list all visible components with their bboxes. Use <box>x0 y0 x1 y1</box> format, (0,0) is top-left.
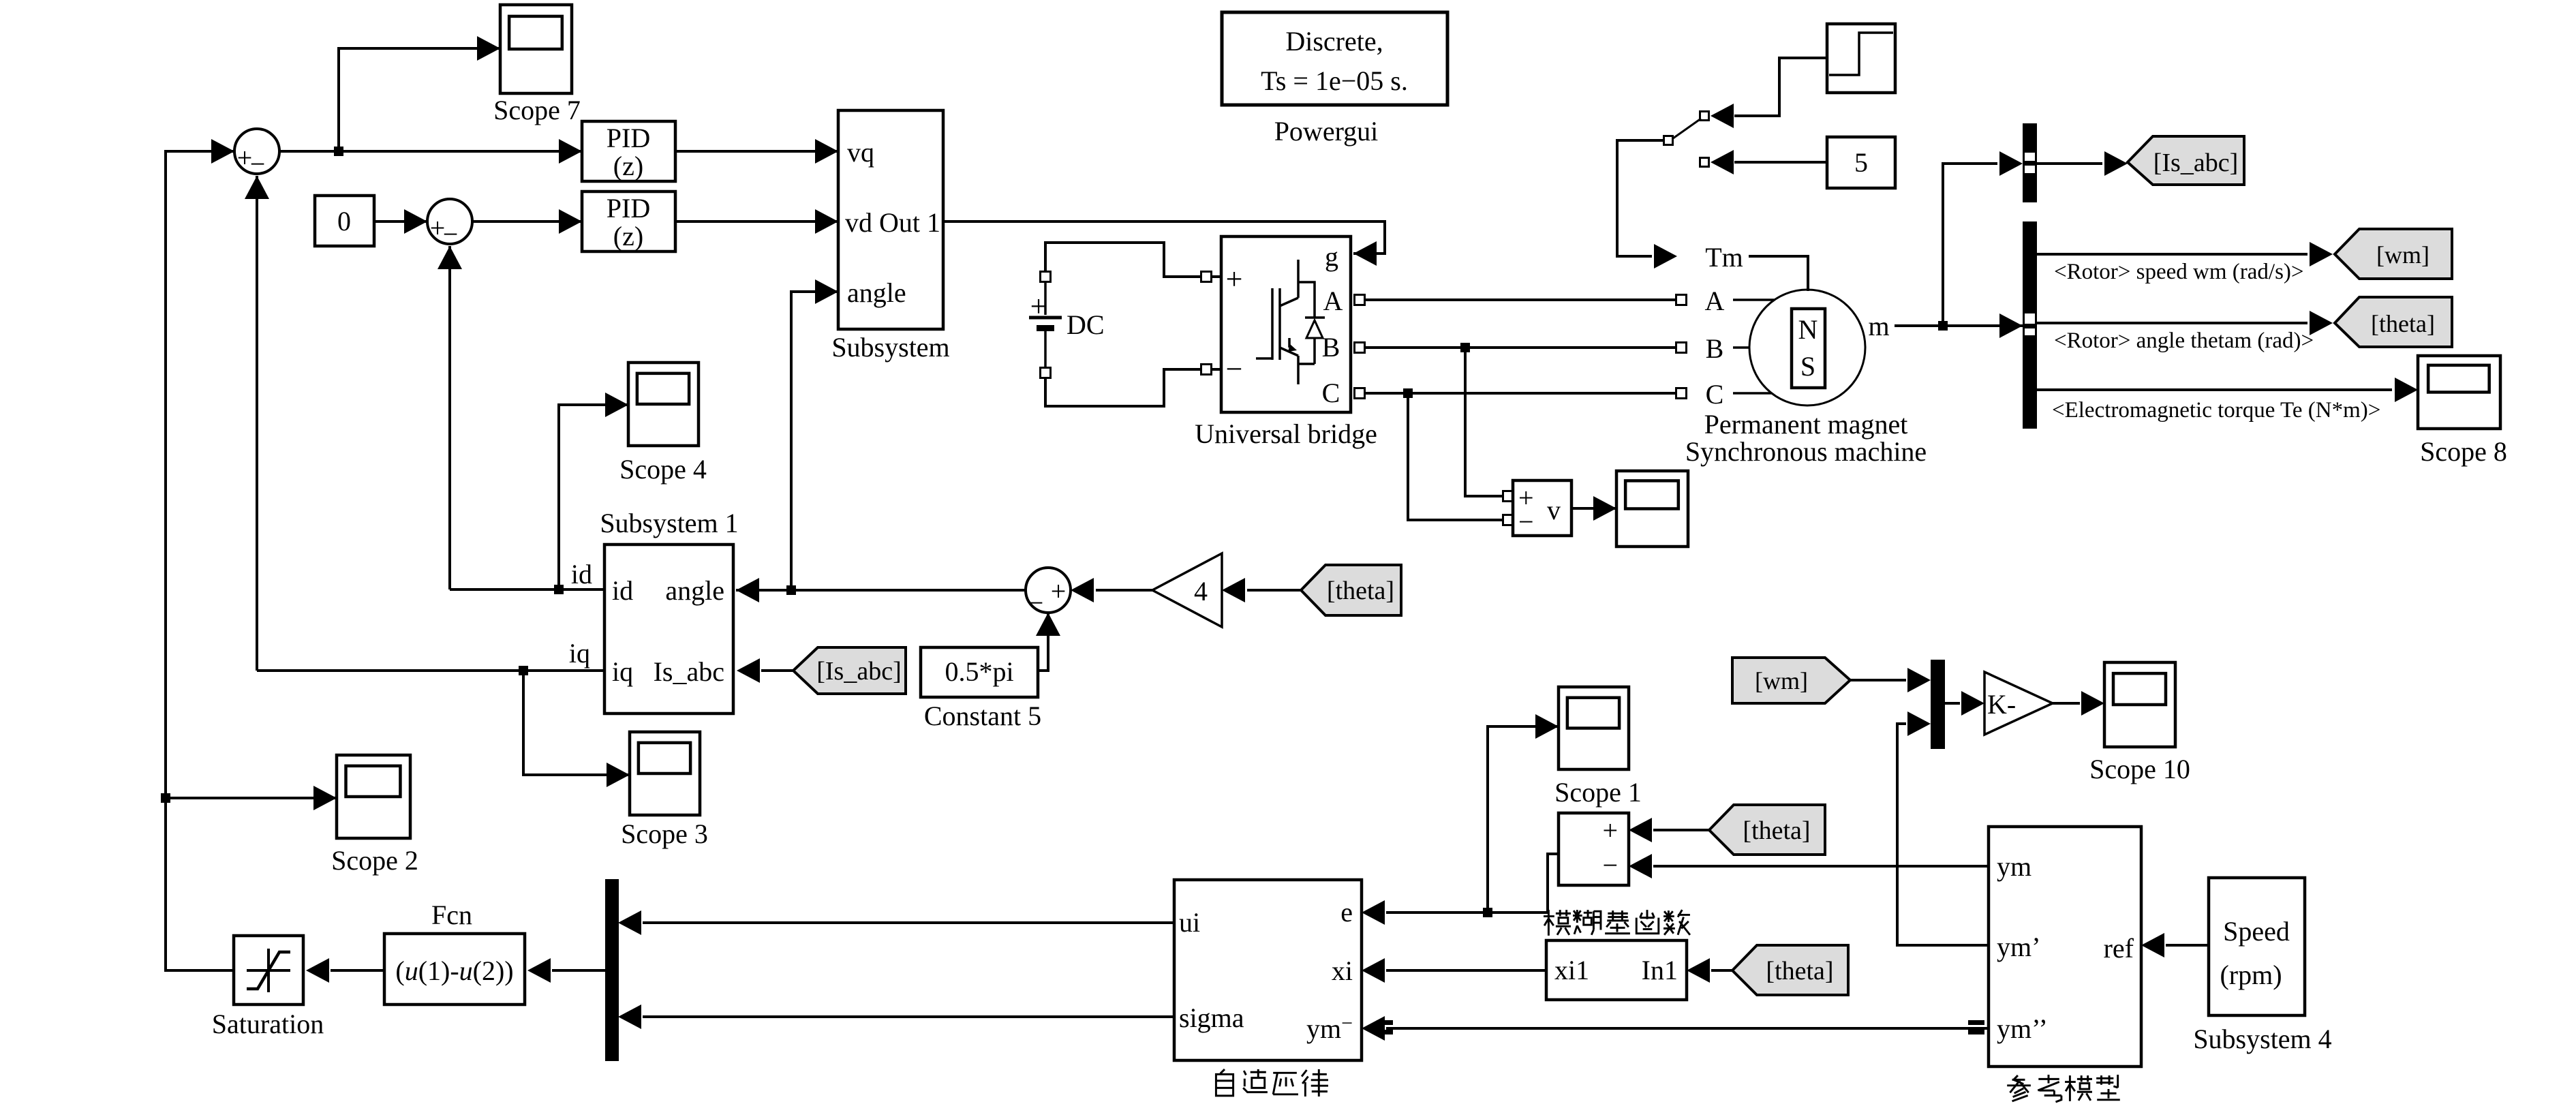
wire arrow into Scope 7 <box>477 36 500 61</box>
wire arrow into e <box>1362 900 1385 925</box>
svg-text:angle: angle <box>847 277 906 308</box>
svg-text:PID: PID <box>607 123 650 153</box>
wire torque Te <box>2037 388 2392 391</box>
wire arrow into K gain <box>1961 691 1984 716</box>
pad DC top <box>1041 272 1051 282</box>
svg-text:ui: ui <box>1179 907 1200 938</box>
block xi1 <box>1546 940 1687 1000</box>
svg-text:xi: xi <box>1332 955 1353 986</box>
wire arrow into Saturation <box>306 958 329 983</box>
block Constant 5 <box>1827 137 1895 188</box>
wire arrow into PID2 <box>559 209 582 234</box>
svg-text:5: 5 <box>1854 147 1868 178</box>
block Subsystem <box>831 110 949 363</box>
pad bridge + port <box>1201 272 1212 282</box>
block Constant 5 (0.5*pi) <box>921 647 1041 731</box>
wire arrow into angle <box>815 279 838 304</box>
svg-text:Permanent magnet: Permanent magnet <box>1704 409 1908 440</box>
pad machine A <box>1676 295 1687 305</box>
wire arrow into Scope 4 <box>605 393 628 417</box>
wire B tap down to V+ <box>1465 348 1503 496</box>
wire Tm into machine <box>1749 256 1808 291</box>
junction Scope2 branch <box>161 793 170 803</box>
svg-text:[theta]: [theta] <box>1327 577 1394 605</box>
block Powergui <box>1222 12 1447 147</box>
svg-text:iq: iq <box>569 638 590 669</box>
svg-text:g: g <box>1325 241 1338 272</box>
wire arrow ym' into mux <box>1907 711 1931 736</box>
wire arrow ui into mux <box>618 910 641 935</box>
svg-text:vq: vq <box>847 137 874 168</box>
wire theta to fuzzy + <box>1653 829 1709 831</box>
svg-text:A: A <box>1323 286 1343 316</box>
wire Speed to ref <box>2166 944 2209 947</box>
wire arrow into bus2 <box>1999 313 2023 338</box>
wire ym' riser <box>1897 724 1989 945</box>
wire Step to switch <box>1734 58 1827 116</box>
svg-text:Scope 2: Scope 2 <box>331 845 418 876</box>
wire phase B <box>1364 346 1676 349</box>
junction m tap <box>1938 321 1948 331</box>
scope Scope 2 <box>331 755 418 876</box>
sum Sum3 (angle calc) <box>1026 568 1071 618</box>
svg-text:[Is_abc]: [Is_abc] <box>816 657 901 686</box>
wire Sum3 out to angle line <box>791 589 1026 592</box>
wire ui to mux <box>643 921 1174 924</box>
svg-text:Scope 8: Scope 8 <box>2420 436 2507 467</box>
svg-text:Universal bridge: Universal bridge <box>1195 418 1377 449</box>
svg-text:ym: ym <box>1997 851 2031 882</box>
wire mux to Fcn <box>552 969 605 972</box>
svg-text:Discrete,: Discrete, <box>1285 26 1383 57</box>
wire bus1 to Is_abc tag <box>2037 162 2102 165</box>
wire arrow into fuzzy + <box>1629 818 1652 842</box>
goto tag [wm] <box>2335 229 2452 279</box>
pad switch common <box>1664 136 1673 145</box>
wire arrow into Scope 1 <box>1535 714 1559 739</box>
scope Scope 4 <box>619 363 707 485</box>
block fuzzy basis fn <box>1559 813 1629 885</box>
junction Scope7 branch <box>334 147 343 156</box>
wire arrow into fuzzy - <box>1629 854 1652 878</box>
svg-text:ref: ref <box>2104 933 2134 964</box>
label adaptive law (zi shi ying lv) <box>1216 1069 1328 1097</box>
wire to Scope 2 <box>166 797 337 799</box>
wire ym'' long line <box>1386 1027 1989 1030</box>
wire arrow into gain 4 <box>1222 578 1245 602</box>
svg-text:N: N <box>1798 314 1818 345</box>
from tag [Is_abc] <box>793 647 906 694</box>
wire arrow into wm tag <box>2310 242 2333 266</box>
svg-text:id: id <box>612 575 633 606</box>
block PID1 (PID (z)) <box>582 121 675 181</box>
svg-text:angle: angle <box>665 575 724 606</box>
bus selector 1 <box>2023 123 2037 202</box>
svg-text:In1: In1 <box>1642 955 1678 985</box>
wire e riser from fuzzy block <box>1548 854 1559 913</box>
block Saturation <box>212 936 324 1039</box>
wire DC+ to bridge + <box>1045 243 1201 277</box>
pad bridge A out <box>1355 295 1365 305</box>
svg-text:Subsystem 1: Subsystem 1 <box>600 508 738 538</box>
wire arrow into Scope 8 <box>2395 378 2418 402</box>
svg-text:Tm: Tm <box>1705 242 1743 273</box>
sum Sum1 (speed error) <box>234 129 279 179</box>
svg-text:Powergui: Powergui <box>1274 116 1379 147</box>
wire Sum2 bottom feedback from id line <box>448 246 451 589</box>
svg-text:sigma: sigma <box>1179 1002 1244 1033</box>
wire arrow into theta tag <box>2310 311 2333 335</box>
wire arrow into PID1 <box>559 139 582 164</box>
svg-text:[Is_abc]: [Is_abc] <box>2153 149 2238 177</box>
wire PID1 to Subsystem vq <box>675 150 838 153</box>
scope voltage (unlabeled) <box>1616 471 1688 547</box>
svg-text:−: − <box>250 149 266 179</box>
wire theta to In1 <box>1711 969 1732 972</box>
pad bridge - port <box>1201 365 1212 375</box>
wire id feedback <box>450 588 604 591</box>
svg-text:[theta]: [theta] <box>1743 816 1810 845</box>
wire 0 to Sum2 <box>374 220 427 223</box>
wire rotor angle <box>2037 322 2307 324</box>
junction iq to Scope3 <box>519 666 528 675</box>
svg-text:0: 0 <box>337 206 351 236</box>
svg-text:Scope 4: Scope 4 <box>619 454 707 485</box>
wire pad to bridge - <box>1211 368 1221 371</box>
pad V- in <box>1503 515 1514 525</box>
wire arrow into Sum2 <box>404 209 427 234</box>
from tag [theta] for gain <box>1301 565 1401 615</box>
svg-text:Scope 10: Scope 10 <box>2089 754 2190 784</box>
block Speed (rpm) Subsystem 4 <box>2193 878 2331 1054</box>
svg-text:+: + <box>1030 290 1047 323</box>
svg-text:S: S <box>1800 351 1815 382</box>
machine PMSM body <box>1749 290 1865 405</box>
pad bridge C out <box>1355 388 1365 399</box>
svg-text:[wm]: [wm] <box>1755 667 1808 694</box>
wire arrow into bus1 <box>1999 151 2023 176</box>
svg-text:C: C <box>1706 379 1724 410</box>
wire arrow into xi <box>1362 958 1385 983</box>
svg-text:Scope 1: Scope 1 <box>1554 777 1642 808</box>
from tag [theta] xi1 <box>1732 945 1848 995</box>
wire Constant5 to switch <box>1734 161 1827 164</box>
svg-text:A: A <box>1705 286 1725 316</box>
svg-text:Fcn: Fcn <box>431 900 472 930</box>
junction angle line <box>786 585 796 595</box>
wire arrow sigma into mux <box>618 1005 641 1029</box>
wire m to bus selectors <box>1895 324 2023 327</box>
block PID2 (PID (z)) <box>582 191 675 251</box>
wire arrow into vd <box>815 209 838 234</box>
block Subsystem 1 <box>600 508 738 714</box>
wire switch to Tm <box>1617 140 1663 256</box>
battery DC source <box>1029 281 1105 368</box>
wire arrow wm into mux <box>1907 668 1931 692</box>
block reference model <box>1989 827 2141 1067</box>
wire theta to gain 4 <box>1247 589 1301 592</box>
scope Scope 1 <box>1554 687 1642 808</box>
wire arrow into switch low <box>1711 150 1734 174</box>
svg-text:ym’: ym’ <box>1997 932 2040 962</box>
from tag [wm] bottom <box>1732 658 1850 703</box>
wire PID2 to Subsystem vd <box>675 220 838 223</box>
svg-text:DC: DC <box>1067 309 1105 340</box>
wire arrow into In1 <box>1687 958 1710 983</box>
svg-text:+: + <box>1226 262 1243 296</box>
wire rotor speed wm <box>2037 253 2307 256</box>
wire angle riser into Subsystem <box>791 292 838 590</box>
wire Sum1 bottom feedback from iq line <box>256 176 258 671</box>
wire Sum2 to PID2 <box>472 220 582 223</box>
svg-text:C: C <box>1322 378 1340 408</box>
wire arrow into Tm <box>1654 244 1677 269</box>
wire arrow into voltage scope <box>1593 496 1616 521</box>
wire arrow into Scope 2 <box>313 786 337 810</box>
wire arrow into Sum3 right <box>1071 578 1094 602</box>
wire 0.5pi to Sum3 bottom <box>1038 613 1048 671</box>
label PMSM <box>1685 409 1927 467</box>
svg-text:K-: K- <box>1987 689 2016 720</box>
svg-text:Ts = 1e−05 s.: Ts = 1e−05 s. <box>1261 65 1408 96</box>
wire arrow into Subsystem1 angle <box>736 578 759 602</box>
svg-text:Saturation: Saturation <box>212 1009 324 1039</box>
svg-text:e: e <box>1340 897 1353 927</box>
svg-text:−: − <box>1602 850 1618 880</box>
wire mux to K gain <box>1945 702 1960 705</box>
wire iq branch to Scope 3 <box>523 671 630 775</box>
svg-text:4: 4 <box>1194 576 1208 607</box>
wire Fcn to Saturation <box>331 969 384 972</box>
svg-text:−: − <box>443 219 459 249</box>
wire arrow into Scope 10 <box>2081 691 2104 716</box>
svg-text:Subsystem: Subsystem <box>831 332 949 363</box>
pad machine B <box>1676 343 1687 353</box>
scope Scope 8 <box>2418 356 2507 467</box>
wire arrow up into Sum1 <box>245 176 269 199</box>
switch arm <box>1673 119 1701 138</box>
wire wm to mux <box>1850 679 1906 681</box>
wire phase A <box>1364 298 1676 301</box>
wire arrow into g <box>1353 241 1377 266</box>
bus selector 2 <box>2023 221 2037 429</box>
wire sigma to mux <box>643 1015 1174 1018</box>
label fuzzy basis fn (mo hu ji han shu) <box>1544 910 1690 936</box>
svg-text:(u(1)-u(2)): (u(1)-u(2)) <box>395 955 513 986</box>
svg-text:<Rotor> angle thetam (rad)>: <Rotor> angle thetam (rad)> <box>2054 328 2314 353</box>
svg-text:Speed: Speed <box>2223 916 2290 947</box>
block Fcn <box>384 900 525 1005</box>
mux right bar <box>1931 660 1945 749</box>
label reference model (can kao mo xing) <box>2007 1075 2120 1102</box>
wire arrow into vq <box>815 139 838 164</box>
svg-text:Is_abc: Is_abc <box>654 656 724 687</box>
svg-text:[theta]: [theta] <box>2371 310 2435 337</box>
svg-text:m: m <box>1868 311 1889 341</box>
wire m up to bus1 <box>1943 164 1997 326</box>
gain K- triangle <box>1984 672 2053 735</box>
wire arrow into Is_abc tag <box>2104 151 2128 176</box>
wire Out1 to Universal bridge g <box>943 221 1385 254</box>
svg-text:+: + <box>1602 815 1618 846</box>
marker conversion right <box>1968 1020 1984 1034</box>
wire arrow into Scope 3 <box>607 763 630 787</box>
wire DC- to bridge - <box>1045 369 1201 406</box>
svg-text:−: − <box>1226 352 1243 386</box>
svg-text:<Rotor> speed wm (rad/s)>: <Rotor> speed wm (rad/s)> <box>2054 260 2304 284</box>
wire iq feedback <box>257 669 604 672</box>
svg-text:[wm]: [wm] <box>2376 241 2429 269</box>
pad DC bottom <box>1041 368 1051 378</box>
goto tag [Is_abc] top <box>2128 136 2244 185</box>
svg-text:v: v <box>1547 495 1561 525</box>
wire ym to fuzzy - <box>1653 865 1989 868</box>
wire Is_abc tag to Subsystem1 <box>761 669 793 672</box>
wire arrow up into Sum3 <box>1036 613 1060 636</box>
scope Scope 10 <box>2089 662 2190 784</box>
scope Scope 3 <box>621 732 708 849</box>
wire gain4 to Sum3 <box>1096 589 1152 592</box>
svg-text:(rpm): (rpm) <box>2220 960 2282 990</box>
wire e line <box>1386 911 1548 914</box>
svg-text:(z): (z) <box>613 221 643 251</box>
block Universal bridge <box>1195 236 1377 449</box>
wire branch up to Scope 7 <box>339 48 500 151</box>
wire Sum1 to PID1 <box>279 150 582 153</box>
mux left bar <box>605 879 619 1061</box>
wire arrow into switch up <box>1711 104 1734 128</box>
block adaptive law <box>1174 880 1362 1060</box>
svg-text:id: id <box>571 559 592 589</box>
svg-text:B: B <box>1706 333 1724 364</box>
svg-text:+: + <box>1051 576 1067 607</box>
wire angle into Subsystem1 <box>736 589 791 592</box>
wire arrow into ref <box>2141 933 2164 957</box>
pad machine C <box>1676 388 1687 399</box>
svg-text:0.5*pi: 0.5*pi <box>945 656 1013 687</box>
wire arrow into Is_abc port <box>737 658 760 683</box>
svg-text:iq: iq <box>612 656 633 687</box>
svg-text:(z): (z) <box>613 151 643 181</box>
wire pad to bridge + <box>1211 275 1221 278</box>
wire xi line <box>1386 969 1546 972</box>
junction phase B tap <box>1460 343 1470 352</box>
machine PMSM ports <box>1705 286 1777 410</box>
svg-text:Scope 3: Scope 3 <box>621 818 708 849</box>
wire arrow into ym- <box>1362 1016 1385 1041</box>
svg-text:−: − <box>1518 506 1534 537</box>
junction id to Scope4 <box>554 585 564 594</box>
wire arrow into Fcn <box>527 958 551 983</box>
wire C tap down to V- <box>1408 393 1503 520</box>
wire phase C <box>1364 392 1676 395</box>
junction phase C tap <box>1403 388 1413 398</box>
svg-text:PID: PID <box>607 193 650 224</box>
svg-text:xi1: xi1 <box>1554 955 1589 985</box>
pad switch in2 <box>1700 158 1709 167</box>
gain 4 triangle <box>1152 553 1222 627</box>
block Constant 0 <box>315 196 374 246</box>
svg-text:Synchronous machine: Synchronous machine <box>1685 436 1927 467</box>
svg-text:B: B <box>1322 332 1340 363</box>
svg-text:−: − <box>1028 587 1044 618</box>
pad bridge B out <box>1355 343 1365 353</box>
wire speed feedback rail (Saturation out up to Sum1) <box>166 151 234 970</box>
wire K to Scope 10 <box>2053 702 2080 705</box>
wire arrow up into Sum2 <box>438 246 462 269</box>
goto tag [theta] <box>2335 297 2452 347</box>
svg-text:vd Out 1: vd Out 1 <box>845 207 940 238</box>
from tag [theta] fuzzy <box>1709 805 1825 855</box>
svg-text:Constant 5: Constant 5 <box>924 701 1041 731</box>
block Step <box>1827 24 1895 93</box>
wire arrow into Sum1 left <box>211 139 234 164</box>
wire branch to Scope 1 <box>1488 726 1559 913</box>
marker conversion left <box>1377 1020 1393 1034</box>
junction e to Scope1 <box>1483 908 1492 917</box>
svg-text:Subsystem 4: Subsystem 4 <box>2193 1024 2331 1054</box>
sum Sum2 (id error) <box>427 199 472 249</box>
pad V+ in <box>1503 491 1514 502</box>
svg-text:<Electromagnetic torque Te (N*: <Electromagnetic torque Te (N*m)> <box>2052 398 2380 423</box>
wire V to scope <box>1571 507 1616 510</box>
scope Scope 7 <box>493 5 581 125</box>
pad switch in1 <box>1700 112 1709 121</box>
block Voltage Measurement <box>1513 480 1571 537</box>
svg-text:[theta]: [theta] <box>1766 957 1833 985</box>
wire id branch to Scope 4 <box>559 405 628 589</box>
svg-text:Scope 7: Scope 7 <box>493 95 581 125</box>
svg-text:ym’’: ym’’ <box>1997 1013 2048 1044</box>
